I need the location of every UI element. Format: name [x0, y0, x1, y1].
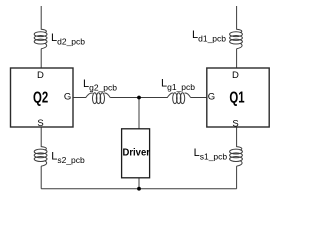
wire: Q2 gate to Lg2_pcb	[73, 93, 93, 97]
transistor Q2 box	[11, 68, 74, 127]
svg-text:S: S	[232, 119, 238, 130]
wire: top feed to Ld2_pcb	[41, 6, 46, 33]
wire: Ls1_pcb down to bus corner	[236, 166, 238, 189]
svg-text:Driver: Driver	[123, 148, 151, 159]
svg-text:D: D	[37, 70, 44, 81]
wire: Q2 source to Ls2_pcb	[41, 127, 46, 150]
svg-text:D: D	[232, 70, 239, 81]
wire: gate node down to Driver	[138, 98, 140, 129]
svg-text:Q2: Q2	[33, 89, 48, 106]
wire: Ls2_pcb down to bus corner	[40, 166, 42, 189]
inductor Ls1_pcb (coil)	[230, 149, 243, 166]
junction node: bottom bus	[137, 187, 141, 191]
svg-text:Lg2_pcb: Lg2_pcb	[83, 78, 117, 92]
svg-text:Lg1_pcb: Lg1_pcb	[161, 77, 195, 91]
svg-text:Ls1_pcb: Ls1_pcb	[194, 147, 228, 161]
inductor Ld2_pcb (coil)	[34, 32, 47, 49]
wire: gate node to Lg1_pcb	[139, 93, 173, 97]
wire: bottom bus	[41, 188, 236, 190]
svg-text:Ls2_pcb: Ls2_pcb	[51, 150, 85, 164]
inductor Ld1_pcb (coil)	[230, 32, 243, 49]
svg-text:Ld2_pcb: Ld2_pcb	[51, 32, 85, 46]
junction node: gate bus	[137, 96, 141, 100]
svg-text:Ld1_pcb: Ld1_pcb	[192, 29, 226, 43]
inductor Lg2_pcb (coil)	[93, 93, 111, 104]
svg-text:G: G	[64, 92, 71, 103]
inductor Ls2_pcb (coil)	[34, 149, 47, 166]
wire: Lg2_pcb to gate node	[110, 97, 139, 99]
wire: Ld1_pcb to Q1 drain	[236, 49, 238, 68]
wire: top feed to Ld1_pcb	[237, 6, 242, 33]
wire: Driver to bottom bus	[138, 178, 140, 189]
svg-text:Q1: Q1	[229, 89, 244, 106]
wire: Ld2_pcb to Q2 drain	[40, 49, 42, 68]
wire: Q1 source to Ls1_pcb	[237, 127, 242, 150]
inductor Lg1_pcb (coil)	[173, 93, 191, 104]
transistor Q1 box	[207, 68, 269, 127]
wire: Lg1_pcb to Q1 gate	[191, 97, 207, 99]
Driver box	[122, 129, 150, 178]
svg-text:G: G	[208, 92, 215, 103]
svg-text:S: S	[37, 118, 43, 129]
